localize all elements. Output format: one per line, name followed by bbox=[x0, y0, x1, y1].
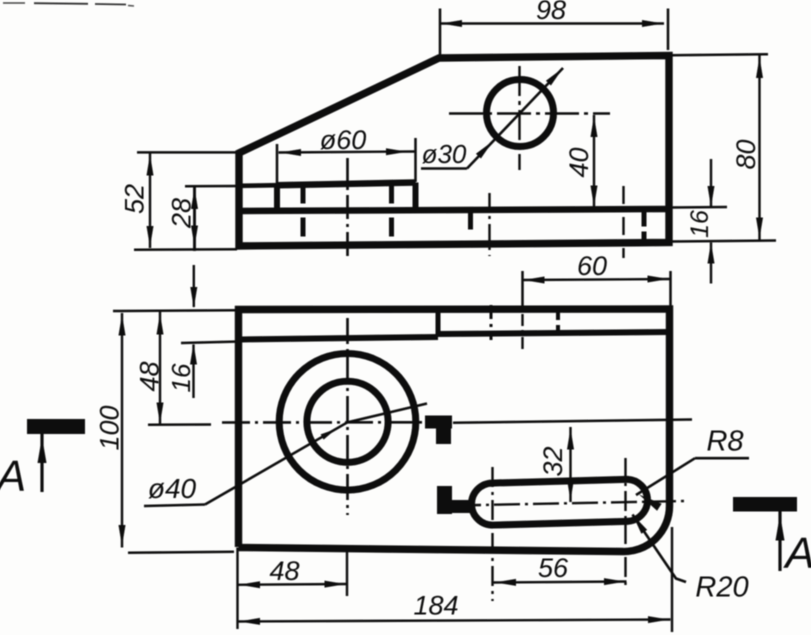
svg-text:100: 100 bbox=[95, 405, 125, 450]
svg-text:ø30: ø30 bbox=[422, 139, 467, 169]
svg-text:16: 16 bbox=[686, 210, 714, 238]
svg-text:40: 40 bbox=[564, 147, 594, 177]
svg-text:ø40: ø40 bbox=[148, 473, 197, 504]
svg-text:28: 28 bbox=[167, 198, 197, 229]
svg-text:16: 16 bbox=[166, 363, 196, 392]
svg-text:A: A bbox=[0, 452, 26, 501]
svg-text:98: 98 bbox=[536, 0, 566, 25]
svg-text:ø60: ø60 bbox=[320, 125, 367, 155]
svg-text:52: 52 bbox=[120, 184, 150, 214]
svg-text:32: 32 bbox=[538, 446, 568, 476]
svg-text:184: 184 bbox=[413, 591, 458, 621]
svg-text:48: 48 bbox=[135, 361, 165, 391]
svg-text:R20: R20 bbox=[695, 572, 748, 604]
svg-text:A: A bbox=[782, 529, 811, 578]
svg-text:60: 60 bbox=[577, 251, 607, 281]
svg-text:48: 48 bbox=[269, 556, 299, 586]
svg-text:56: 56 bbox=[538, 553, 569, 583]
svg-text:R8: R8 bbox=[706, 426, 743, 458]
svg-text:80: 80 bbox=[731, 139, 761, 169]
